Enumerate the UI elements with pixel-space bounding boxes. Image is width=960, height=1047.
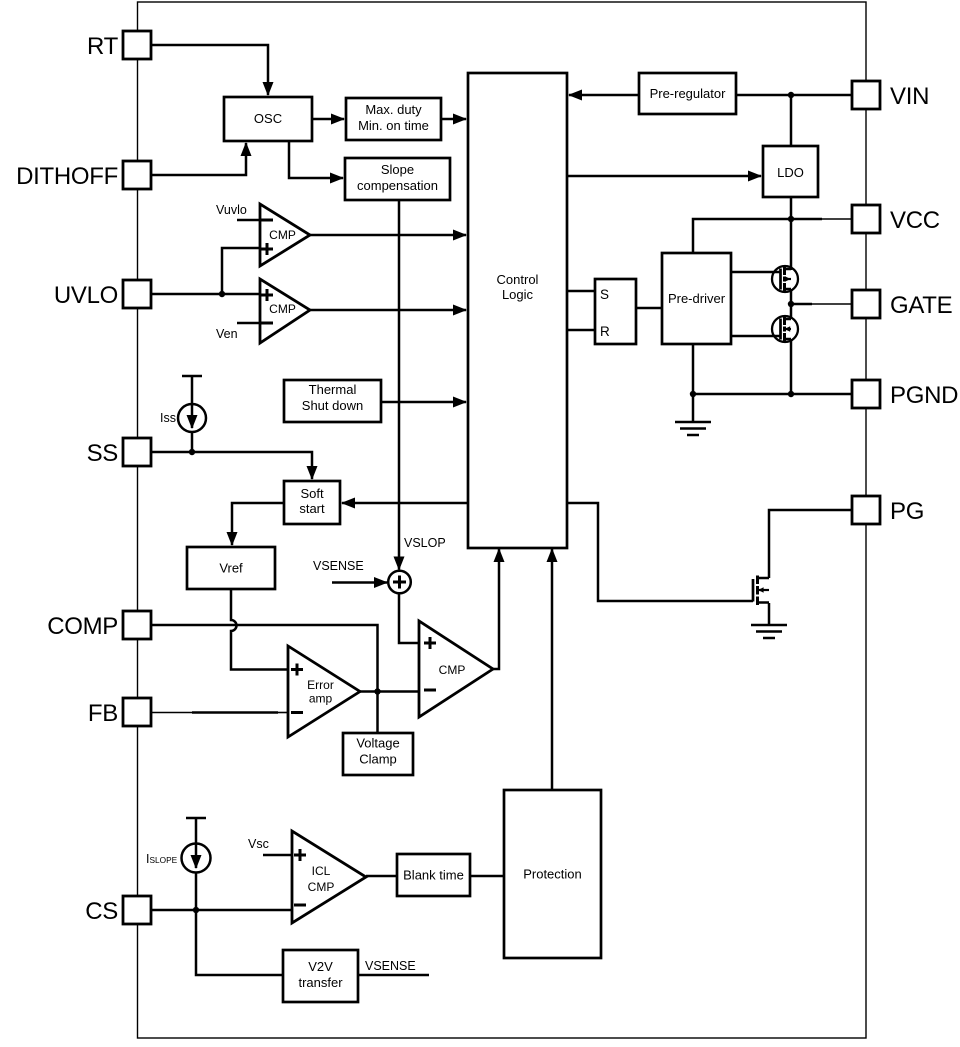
svg-text:Clamp: Clamp <box>359 752 397 767</box>
block Max duty / Min on time <box>346 98 441 140</box>
wire UVLO branch up to CMP1 plus <box>222 248 260 294</box>
wire Vsc stub to ICL CMP plus <box>263 854 292 857</box>
svg-text:Blank time: Blank time <box>403 868 464 883</box>
wire Control Logic R to latch <box>567 329 595 332</box>
svg-text:R: R <box>600 324 610 339</box>
comparator CMP (PWM) <box>419 621 493 717</box>
svg-text:GATE: GATE <box>890 292 952 319</box>
block Control Logic <box>468 73 567 548</box>
svg-text:VIN: VIN <box>890 83 929 110</box>
wire Pre-regulator to Control Logic <box>569 94 639 97</box>
node GATE junction <box>788 301 794 307</box>
latch S R <box>595 279 636 344</box>
pin COMP <box>47 611 151 640</box>
wire PG MOSFET drain to PG pin <box>769 510 852 578</box>
wire V2V transfer VSENSE output <box>358 974 429 977</box>
wire lower MOSFET source down <box>790 339 793 394</box>
svg-text:compensation: compensation <box>357 178 438 193</box>
pin CS <box>85 896 151 925</box>
pin PG <box>852 496 924 525</box>
svg-text:LDO: LDO <box>777 165 804 180</box>
wire MOSFET midpoint to GATE pin <box>791 303 852 306</box>
wire VCC node to Pre-driver top <box>693 219 791 253</box>
node PGND junction at pre-driver <box>690 391 696 397</box>
wire Control Logic S to latch <box>567 290 595 293</box>
node VCC junction <box>788 216 794 222</box>
pin PGND <box>852 380 958 409</box>
pin GATE <box>852 290 952 319</box>
svg-text:Vsc: Vsc <box>248 837 269 851</box>
wire PGND rail <box>693 393 852 396</box>
wire Protection up to Control Logic <box>551 549 554 790</box>
block Pre-regulator <box>639 73 736 114</box>
svg-text:Shut down: Shut down <box>302 398 363 413</box>
svg-text:Pre-driver: Pre-driver <box>668 291 726 306</box>
svg-text:COMP: COMP <box>47 613 118 640</box>
pin DITHOFF <box>16 161 151 190</box>
op-amp Error amp <box>288 646 360 737</box>
svg-text:start: start <box>299 501 325 516</box>
wire CMP output up to Control Logic <box>493 549 499 669</box>
svg-text:Vref: Vref <box>219 561 243 576</box>
svg-text:CS: CS <box>85 898 118 925</box>
node CS junction <box>193 907 199 913</box>
wire DITHOFF to OSC <box>151 143 246 175</box>
svg-text:CMP: CMP <box>269 302 296 316</box>
svg-text:Slope: Slope <box>381 162 414 177</box>
wire between MOSFETs <box>790 289 793 319</box>
block Pre-driver <box>662 253 731 344</box>
wire Max duty to Control Logic <box>441 118 466 121</box>
node SS junction <box>189 449 195 455</box>
svg-text:PGND: PGND <box>890 382 958 409</box>
wire VCC node to VCC pin <box>791 218 852 221</box>
wire UVLO pin to CMP2 plus <box>151 293 260 296</box>
wire Error amp output to CMP minus <box>360 690 419 693</box>
wire latch to Pre-driver <box>636 307 662 310</box>
wire VIN down to LDO <box>790 95 793 146</box>
block Slope compensation <box>345 158 450 200</box>
transistor PG NMOS <box>753 576 769 606</box>
wire Pre-driver bottom to PGND rail <box>692 344 695 394</box>
svg-text:Max. duty: Max. duty <box>365 102 422 117</box>
svg-text:VSENSE: VSENSE <box>313 559 364 573</box>
node COMP / error amp output junction <box>374 688 380 694</box>
block Blank time <box>397 854 470 896</box>
svg-text:DITHOFF: DITHOFF <box>16 163 118 190</box>
block Protection <box>504 790 601 958</box>
pin VCC <box>852 205 940 234</box>
pin RT <box>87 31 151 60</box>
svg-text:ICL: ICL <box>312 864 331 878</box>
comparator CMP2 (Ven) <box>260 279 310 343</box>
wire Control Logic to PG MOSFET gate <box>567 503 753 601</box>
transistor lower NMOS in circle <box>772 316 798 342</box>
wire CS branch to V2V transfer <box>196 910 283 975</box>
wire ICL CMP to Blank time <box>366 875 397 878</box>
IC outline border <box>138 2 867 1038</box>
svg-text:Soft: Soft <box>300 486 324 501</box>
ground under Pre-driver <box>675 394 711 435</box>
svg-text:Min. on time: Min. on time <box>358 118 429 133</box>
block LDO <box>763 146 818 197</box>
pin UVLO <box>54 280 151 309</box>
transistor upper PMOS in circle <box>772 266 798 292</box>
svg-text:Error: Error <box>307 678 334 692</box>
node VIN junction <box>788 92 794 98</box>
wire OSC to Max duty <box>312 118 344 121</box>
wire Pre-driver to lower MOSFET gate <box>731 335 780 338</box>
wire Vuvlo stub to CMP1 minus <box>237 219 260 222</box>
svg-text:Protection: Protection <box>523 867 582 882</box>
svg-text:CMP: CMP <box>308 880 335 894</box>
svg-text:Vuvlo: Vuvlo <box>216 203 247 217</box>
svg-text:Control: Control <box>497 272 539 287</box>
svg-text:RT: RT <box>87 33 119 60</box>
svg-text:Logic: Logic <box>502 287 534 302</box>
wire Blank time to Protection <box>470 875 504 878</box>
node PGND junction at MOSFET <box>788 391 794 397</box>
svg-text:amp: amp <box>309 692 333 706</box>
block Soft start <box>284 481 340 524</box>
svg-text:OSC: OSC <box>254 111 282 126</box>
current source Iss <box>178 376 206 452</box>
svg-text:CMP: CMP <box>269 228 296 242</box>
svg-text:Voltage: Voltage <box>356 736 399 751</box>
svg-text:UVLO: UVLO <box>54 282 118 309</box>
pin SS <box>87 438 151 467</box>
svg-text:VCC: VCC <box>890 207 940 234</box>
pin FB <box>88 698 151 727</box>
svg-text:V2V: V2V <box>308 959 333 974</box>
wire Ven stub to CMP2 minus <box>237 322 260 325</box>
comparator CMP1 (Vuvlo) <box>260 204 310 266</box>
wire VSLOP: Slope compensation down to summing node <box>398 200 401 570</box>
wire Control Logic to LDO <box>567 175 761 178</box>
block V2V transfer <box>283 950 358 1002</box>
wire LDO down to VCC node and upper MOSFET drain <box>790 197 793 270</box>
wire CMP2 output to Control Logic <box>310 309 466 312</box>
svg-text:SS: SS <box>87 440 118 467</box>
pin VIN <box>852 81 929 110</box>
current source ISLOPE <box>182 818 211 910</box>
ground under PG MOSFET <box>751 603 787 638</box>
svg-text:Pre-regulator: Pre-regulator <box>650 86 727 101</box>
wire OSC to Slope compensation <box>289 141 343 178</box>
svg-text:ISLOPE: ISLOPE <box>146 852 178 866</box>
block Voltage Clamp <box>343 733 413 775</box>
block Thermal Shut down <box>284 380 381 422</box>
svg-text:VSENSE: VSENSE <box>365 959 416 973</box>
svg-text:S: S <box>600 287 609 302</box>
node UVLO branch junction <box>219 291 225 297</box>
wire Soft start to Vref <box>232 503 284 545</box>
svg-text:Thermal: Thermal <box>309 382 357 397</box>
wire Thermal Shutdown to Control Logic <box>381 401 466 404</box>
svg-text:PG: PG <box>890 498 924 525</box>
wire VSENSE into summing node <box>332 581 387 584</box>
wire Control Logic to Soft start <box>342 502 468 505</box>
svg-text:Ven: Ven <box>216 327 238 341</box>
wire CMP1 output to Control Logic <box>310 234 466 237</box>
block Vref <box>187 547 275 589</box>
svg-text:FB: FB <box>88 700 118 727</box>
wire CS pin to ICL CMP minus <box>151 909 292 912</box>
wire COMP pin to error amp output and Voltage Clamp <box>151 625 378 733</box>
wire summing node to CMP plus <box>399 593 419 644</box>
svg-text:transfer: transfer <box>298 975 343 990</box>
wire Vref down with hop over COMP wire to Error amp plus <box>231 589 288 670</box>
svg-text:CMP: CMP <box>439 663 466 677</box>
wire VIN pin to Pre-regulator <box>736 94 852 97</box>
wire Pre-driver to upper MOSFET gate <box>731 271 780 274</box>
summing node with plus <box>388 571 411 594</box>
svg-text:Iss: Iss <box>160 411 176 425</box>
wire RT to OSC <box>151 45 268 95</box>
wire SS pin to Soft start <box>151 452 312 479</box>
comparator ICL CMP <box>292 831 366 923</box>
wire FB pin to Error amp minus <box>151 712 288 714</box>
svg-text:VSLOP: VSLOP <box>404 536 446 550</box>
block OSC <box>224 97 312 141</box>
